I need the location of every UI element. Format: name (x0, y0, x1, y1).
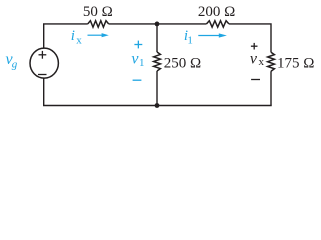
plus sign vx (251, 43, 258, 50)
svg-text:200 Ω: 200 Ω (198, 4, 235, 20)
svg-text:g: g (12, 59, 18, 71)
wire middle branch top (156, 24, 158, 52)
svg-text:v: v (250, 51, 258, 68)
svg-text:175 Ω: 175 Ω (277, 55, 314, 71)
bottom wire (43, 105, 272, 107)
svg-text:x: x (259, 56, 265, 68)
wire top-mid between resistors (109, 23, 207, 25)
wire middle branch bottom (156, 71, 158, 106)
node dot top middle (155, 22, 160, 27)
wire top-right corner down (229, 24, 271, 52)
minus sign inside source (38, 74, 47, 76)
svg-text:1: 1 (187, 35, 193, 47)
plus sign v1 (134, 41, 142, 49)
svg-text:x: x (76, 35, 82, 47)
current arrow i_x (88, 33, 109, 37)
voltage source vg circle (30, 48, 58, 78)
svg-text:1: 1 (139, 57, 145, 69)
svg-text:50 Ω: 50 Ω (83, 4, 113, 20)
minus sign vx (251, 79, 260, 81)
node dot bottom middle (155, 103, 160, 108)
svg-text:250 Ω: 250 Ω (164, 55, 201, 71)
wire right branch bottom (270, 71, 272, 105)
wire source bottom to bottom rail (43, 78, 45, 105)
resistor 50ohm zigzag (88, 21, 109, 27)
plus sign inside source (39, 51, 47, 59)
wire right branch top lead (270, 51, 272, 53)
svg-text:i: i (71, 28, 75, 44)
current arrow i_1 (198, 33, 227, 37)
resistor 175ohm zigzag (268, 52, 275, 71)
resistor 200ohm zigzag (207, 21, 229, 27)
minus sign v1 (133, 79, 142, 81)
wire top-left from source to 50ohm (44, 24, 88, 48)
resistor 250ohm zigzag (154, 52, 161, 71)
